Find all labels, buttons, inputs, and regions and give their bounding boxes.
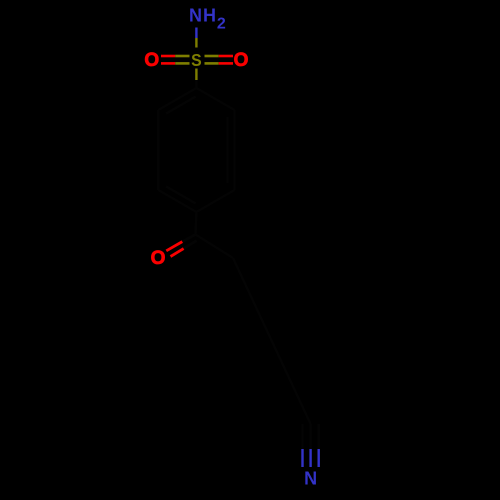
bond C5-C6 — [157, 110, 159, 190]
chain CH2...C(nitrile) — [233, 258, 311, 424]
svg-text:N: N — [304, 468, 317, 488]
svg-text:O: O — [144, 50, 159, 71]
bond S-C1 (C half dark) — [195, 80, 197, 88]
aromatic inner line C6=C1 — [166, 97, 196, 114]
svg-text:O: O — [151, 248, 166, 269]
double bond C=O, main line (C half dark / O half red) — [182, 235, 195, 242]
bond C2-C3 — [233, 110, 235, 190]
double bond S=O left, lower line — [161, 62, 175, 65]
triple bond C#N, middle line — [309, 424, 311, 449]
triple bond C#N, right line — [318, 424, 320, 449]
benzene ring C1-C2-C3-C4-C5-C6 — [158, 88, 234, 212]
double bond S=O right, upper line (S half olive / O half red) — [205, 55, 219, 58]
double bond S=O left, upper line (O half red / S half olive) — [161, 55, 175, 58]
bond C1-C2 — [196, 88, 234, 110]
bond carbonyl C - CH2 — [196, 235, 234, 259]
triple bond C#N, left line (C half dark / N half blue) — [301, 424, 303, 449]
bond C4-C(=O) carbonyl — [194, 212, 197, 235]
bond N-S (S half, olive) — [195, 38, 197, 48]
svg-text:O: O — [234, 50, 249, 71]
svg-text:N: N — [189, 6, 202, 26]
amide N label NH2 — [189, 6, 226, 33]
bond N-S (N half, blue) — [195, 28, 197, 39]
bond C4-C5 — [158, 190, 196, 212]
bond C3-C4 — [196, 190, 234, 212]
svg-text:2: 2 — [217, 16, 226, 33]
svg-text:H: H — [203, 6, 216, 26]
bond S-C1 (S half olive) — [195, 69, 197, 81]
bond C6-C1 — [158, 88, 196, 110]
aromatic inner line C4=C5 — [166, 186, 196, 203]
svg-text:S: S — [191, 50, 202, 70]
double bond S=O right, lower line — [205, 62, 219, 65]
double bond C=O, inner line — [184, 241, 197, 249]
aromatic inner line C2=C3 — [226, 117, 228, 183]
